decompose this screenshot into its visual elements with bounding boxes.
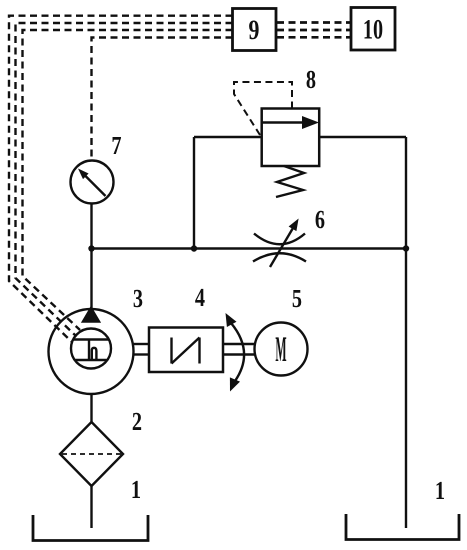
wire: main pressure line	[92, 247, 407, 249]
drive unit U4 symbol right stroke	[198, 338, 200, 364]
drive unit U4 symbol diagonal	[172, 338, 200, 364]
pump P3 rotor bottom chord	[75, 359, 108, 361]
wire: pump outlet riser	[90, 249, 92, 311]
tank 1 (left)	[33, 515, 148, 541]
relief valve V8 body	[262, 109, 320, 167]
motor M5 circle	[255, 323, 308, 376]
pump P3 inner circle	[71, 329, 111, 369]
svg-text:M: M	[275, 329, 286, 369]
signal wire B: box9 to pump (dashed middle)	[16, 23, 233, 336]
svg-text:3: 3	[133, 284, 143, 313]
relief valve V8 spring	[276, 166, 304, 197]
rotation arrow top head	[226, 313, 237, 327]
shaft: drive to motor (lower)	[223, 353, 255, 355]
signal wire C: box9 to pump (dashed inner)	[23, 30, 233, 330]
svg-text:8: 8	[306, 65, 316, 94]
wire: relief branch left horizontal	[194, 136, 262, 138]
pressure gauge G7 needle arrowhead	[78, 169, 89, 180]
shaft: drive to motor (upper)	[223, 343, 255, 345]
shaft: pump to drive (lower)	[134, 353, 150, 355]
signal wire 9-10 upper (dashed)	[277, 21, 351, 24]
pressure gauge G7 circle	[71, 161, 114, 204]
wire: filter to left tank	[90, 486, 92, 528]
wire: gauge stem	[90, 204, 92, 249]
relief valve V8 flow line	[262, 121, 308, 123]
node junction at return branch	[403, 245, 409, 251]
signal wire 9-10 lower (dashed)	[277, 36, 351, 39]
svg-text:4: 4	[195, 283, 205, 312]
wire: relief branch right horizontal	[319, 136, 406, 138]
relief valve V8 flow arrowhead	[302, 116, 319, 129]
node junction at relief branch	[191, 245, 197, 251]
filter F2 diamond	[60, 422, 123, 486]
pump P3 h-mark	[92, 348, 97, 360]
svg-text:7: 7	[111, 131, 121, 160]
svg-text:1: 1	[131, 475, 141, 504]
controller box 9	[233, 9, 277, 51]
shaft: pump to drive (upper)	[134, 343, 150, 345]
throttle valve V6 bottom arc	[253, 253, 306, 261]
svg-text:5: 5	[292, 284, 302, 313]
relief valve V8 pilot line (dashed)	[234, 82, 292, 135]
pump P3 outer circle	[49, 309, 134, 394]
pump P3 outlet triangle	[83, 308, 99, 322]
wire: pump suction	[90, 393, 92, 422]
rotation arrow bottom head	[230, 377, 240, 391]
drive unit U4 symbol left stroke	[170, 338, 172, 364]
pump P3 divider	[88, 340, 90, 361]
svg-text:1: 1	[435, 476, 445, 505]
drive unit U4 box	[149, 328, 223, 373]
tank 1 (right)	[346, 514, 459, 540]
indicator box 10	[351, 8, 395, 51]
pump P3 rotor top chord	[74, 338, 109, 340]
svg-text:9: 9	[249, 15, 260, 46]
rotation arrow arc	[231, 323, 244, 381]
signal wire 9-10 middle (dashed)	[277, 29, 351, 32]
wire: return line to right tank	[405, 137, 407, 528]
svg-text:6: 6	[315, 205, 325, 234]
svg-text:2: 2	[132, 407, 142, 436]
throttle valve V6 arrow shaft	[270, 228, 293, 267]
wire: relief branch left vertical	[193, 137, 195, 249]
throttle valve V6 arrowhead	[289, 219, 299, 232]
node junction at gauge branch	[88, 245, 94, 251]
signal wire D: box9 to gauge (dashed)	[92, 38, 233, 161]
svg-text:10: 10	[363, 15, 383, 46]
throttle valve V6 top arc	[254, 234, 305, 245]
signal wire A: box9 to pump (dashed outer)	[9, 16, 233, 342]
filter F2 element (dashed diameter)	[62, 453, 121, 455]
pressure gauge G7 needle	[84, 175, 106, 197]
